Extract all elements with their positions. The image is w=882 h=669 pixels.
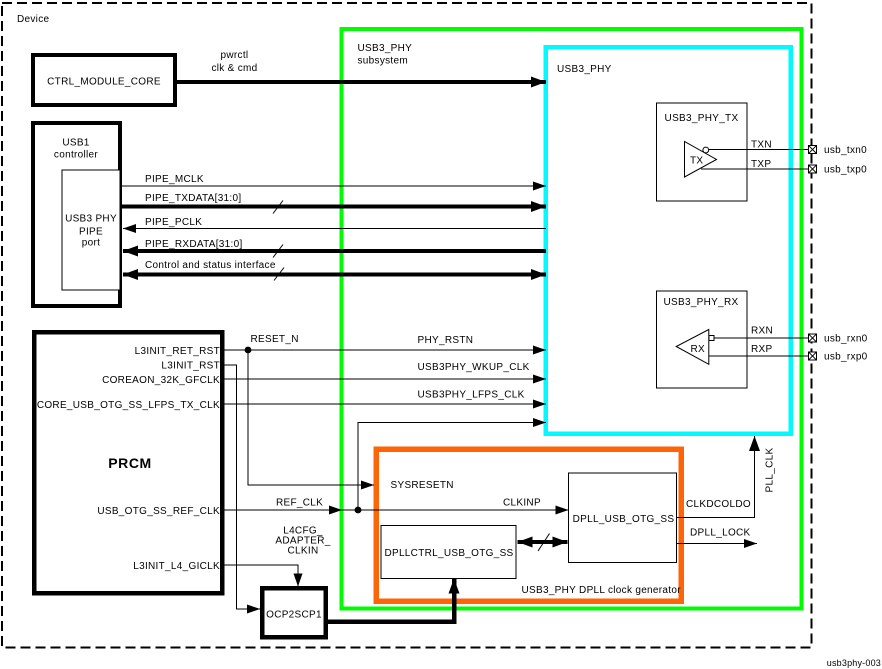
svg-text:controller: controller: [54, 150, 98, 161]
wire PIPE_TXDATA[31:0]: [120, 193, 546, 214]
wire Control and status interface: [123, 260, 546, 281]
wire PIPE_PCLK: [123, 217, 546, 229]
svg-text:USB_OTG_SS_REF_CLK: USB_OTG_SS_REF_CLK: [97, 506, 220, 517]
wire COREAON_32K_GFCLK / USB3PHY_WKUP_CLK: [224, 362, 546, 379]
svg-text:PIPE_PCLK: PIPE_PCLK: [145, 217, 202, 228]
buffer TX: [685, 142, 717, 178]
svg-text:Device: Device: [17, 14, 50, 25]
wire L3INIT_RST to OCP2SCP1: [224, 365, 260, 609]
terminal usb_txp0: [809, 165, 867, 176]
svg-text:DPLLCTRL_USB_OTG_SS: DPLLCTRL_USB_OTG_SS: [384, 548, 513, 559]
wire CLKDCOLDO / PLL_CLK: [677, 436, 776, 518]
block DPLLCTRL_USB_OTG_SS: [381, 526, 516, 579]
svg-text:TXP: TXP: [751, 159, 771, 170]
svg-text:RXP: RXP: [751, 344, 772, 355]
wire RESET_N to SYSRESETN: [248, 350, 374, 485]
svg-text:DPLL_USB_OTG_SS: DPLL_USB_OTG_SS: [573, 514, 675, 525]
USB3_PHY subsystem boundary (green): [342, 29, 802, 609]
svg-text:USB3PHY_LFPS_CLK: USB3PHY_LFPS_CLK: [418, 390, 525, 401]
svg-text:PLL_CLK: PLL_CLK: [765, 448, 776, 493]
terminal usb_rxn0: [809, 334, 868, 345]
svg-text:OCP2SCP1: OCP2SCP1: [266, 610, 322, 621]
svg-text:PIPE_TXDATA[31:0]: PIPE_TXDATA[31:0]: [145, 193, 241, 204]
svg-text:CTRL_MODULE_CORE: CTRL_MODULE_CORE: [47, 77, 161, 88]
wire RXP: [709, 344, 809, 356]
svg-text:USB3_PHY_RX: USB3_PHY_RX: [664, 297, 739, 308]
USB3_PHY DPLL clock generator boundary (orange): [376, 449, 681, 601]
svg-text:L3INIT_RST: L3INIT_RST: [161, 361, 220, 372]
svg-text:pwrctl: pwrctl: [221, 50, 249, 61]
wire pwrctl clk & cmd: [176, 50, 546, 82]
svg-text:TXN: TXN: [751, 140, 772, 151]
label USB3_PHY subsystem: [358, 43, 413, 67]
svg-text:PIPE_MCLK: PIPE_MCLK: [145, 174, 204, 185]
svg-text:PHY_RSTN: PHY_RSTN: [418, 335, 474, 346]
block CTRL_MODULE_CORE: [33, 55, 175, 105]
wire TXP: [701, 159, 809, 170]
block USB3_PHY_TX: [657, 103, 748, 201]
wire PIPE_RXDATA[31:0]: [123, 239, 546, 258]
svg-text:USB3_PHY: USB3_PHY: [358, 43, 413, 54]
wire CORE_USB_OTG_SS_LFPS_TX_CLK / USB3PHY_LFPS_CLK: [224, 390, 546, 405]
svg-text:USB3_PHY DPLL clock generator: USB3_PHY DPLL clock generator: [522, 585, 682, 596]
svg-text:clk & cmd: clk & cmd: [211, 63, 257, 74]
svg-text:usb_rxn0: usb_rxn0: [824, 334, 868, 345]
terminal usb_txn0: [809, 145, 867, 156]
svg-text:COREAON_32K_GFCLK: COREAON_32K_GFCLK: [102, 375, 220, 386]
svg-text:usb_txp0: usb_txp0: [824, 165, 867, 176]
svg-text:DPLL_LOCK: DPLL_LOCK: [690, 528, 751, 539]
svg-text:subsystem: subsystem: [358, 56, 409, 67]
svg-text:USB1: USB1: [62, 138, 89, 149]
svg-text:RESET_N: RESET_N: [251, 334, 299, 345]
terminal usb_rxp0: [809, 352, 868, 363]
wire DPLL_LOCK: [677, 528, 758, 544]
svg-text:USB3_PHY_TX: USB3_PHY_TX: [665, 113, 739, 124]
node REF_CLK junction: [355, 507, 362, 514]
block PRCM: [34, 332, 222, 593]
svg-text:CLKIN: CLKIN: [288, 546, 319, 557]
svg-text:L3INIT_L4_GICLK: L3INIT_L4_GICLK: [133, 561, 220, 572]
wire PIPE_MCLK: [120, 174, 546, 186]
svg-text:USB3_PHY: USB3_PHY: [557, 64, 612, 75]
block USB1 controller: [33, 123, 120, 306]
buffer RX: [676, 330, 714, 365]
svg-text:Control and status interface: Control and status interface: [145, 260, 276, 271]
svg-text:USB3 PHY: USB3 PHY: [65, 214, 117, 225]
node RESET_N junction: [245, 347, 252, 354]
USB3_PHY boundary (cyan): [546, 47, 791, 434]
block USB3_PHY_RX: [657, 291, 748, 388]
block DPLL_USB_OTG_SS: [569, 473, 677, 563]
wire OCP2SCP1 to DPLLCTRL_USB_OTG_SS: [328, 579, 454, 622]
svg-text:PRCM: PRCM: [108, 455, 152, 471]
wire TXN: [709, 140, 809, 151]
svg-text:SYSRESETN: SYSRESETN: [391, 480, 454, 491]
svg-text:CORE_USB_OTG_SS_LFPS_TX_CLK: CORE_USB_OTG_SS_LFPS_TX_CLK: [37, 400, 220, 411]
wire DPLLCTRL to DPLL bidirectional: [518, 534, 568, 552]
svg-text:RX: RX: [691, 344, 706, 355]
svg-text:usb_rxp0: usb_rxp0: [824, 352, 868, 363]
svg-text:port: port: [82, 238, 100, 249]
wire L3INIT_L4_GICLK / L4CFG_ADAPTER_CLKIN: [224, 526, 331, 587]
wire L3INIT_RET_RST / PHY_RSTN: [224, 334, 546, 350]
svg-text:RXN: RXN: [751, 326, 773, 337]
svg-text:USB3PHY_WKUP_CLK: USB3PHY_WKUP_CLK: [418, 362, 530, 373]
wire REF_CLK to CLKINP: [342, 498, 569, 511]
svg-text:PIPE_RXDATA[31:0]: PIPE_RXDATA[31:0]: [145, 239, 243, 250]
block USB3 PHY PIPE port: [62, 170, 120, 290]
wire USB_OTG_SS_REF_CLK / REF_CLK: [224, 498, 342, 511]
svg-text:L3INIT_RET_RST: L3INIT_RET_RST: [135, 346, 220, 357]
wire REF_CLK branch up into USB3_PHY: [358, 423, 546, 511]
block OCP2SCP1: [262, 588, 326, 637]
svg-text:usb_txn0: usb_txn0: [824, 145, 867, 156]
svg-text:usb3phy-003: usb3phy-003: [827, 658, 881, 668]
svg-text:REF_CLK: REF_CLK: [276, 498, 323, 509]
svg-text:TX: TX: [690, 156, 703, 167]
wire RXN: [714, 326, 809, 339]
svg-text:CLKINP: CLKINP: [503, 498, 541, 509]
svg-text:PIPE: PIPE: [79, 227, 103, 238]
svg-text:CLKDCOLDO: CLKDCOLDO: [686, 499, 751, 510]
